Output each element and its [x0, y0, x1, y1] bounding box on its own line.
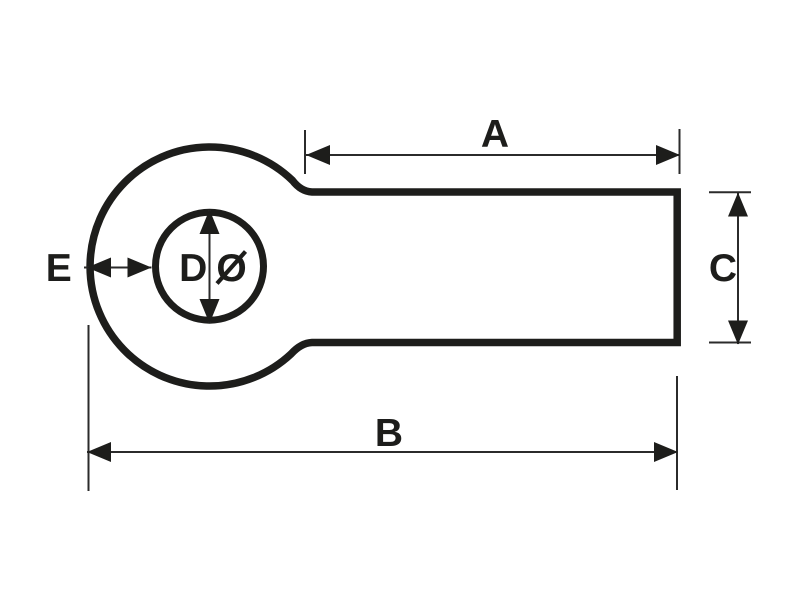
- svg-text:D: D: [179, 247, 207, 290]
- dimension C extension tick bottom: [709, 342, 751, 344]
- dimension A extension tick left: [304, 130, 306, 174]
- dimension E arrowhead left: [87, 258, 111, 278]
- svg-text:E: E: [46, 247, 72, 290]
- svg-text:A: A: [481, 113, 509, 156]
- dimension A arrowhead left: [306, 145, 330, 165]
- dimension E arrowhead right: [128, 258, 152, 278]
- dimension C extension tick top: [709, 191, 751, 193]
- dimension A line: [306, 154, 680, 156]
- dimension C arrowhead bottom: [728, 321, 748, 345]
- dimension B extension line right: [676, 376, 678, 490]
- dimension C arrowhead top: [728, 193, 748, 217]
- dimension B arrowhead right: [654, 442, 678, 462]
- dimension B arrowhead left: [87, 442, 111, 462]
- dimension C line: [737, 193, 739, 344]
- dimension A extension tick right: [679, 129, 681, 174]
- dimension B line: [87, 451, 678, 453]
- dimension E line: [84, 267, 152, 269]
- svg-text:B: B: [375, 412, 403, 455]
- dimension B extension line left: [88, 325, 90, 491]
- bore circle DØ: [156, 212, 264, 320]
- dimension D line: [209, 210, 211, 323]
- dimension D arrowhead bottom: [200, 299, 220, 324]
- dimension A arrowhead right: [656, 145, 680, 165]
- svg-text:C: C: [709, 247, 737, 290]
- part outline: eye head and shank: [90, 147, 677, 386]
- dimension D arrowhead top: [200, 210, 220, 235]
- dimension D diameter slash: [217, 252, 246, 284]
